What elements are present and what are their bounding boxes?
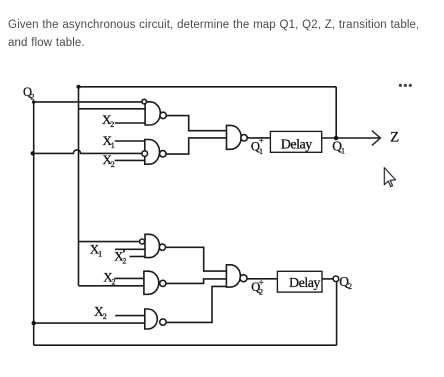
wire X2 lead gate1: [115, 122, 145, 124]
nand gate U3 output bubble: [241, 135, 247, 141]
svg-text:2: 2: [111, 160, 115, 169]
svg-text:2: 2: [30, 93, 34, 102]
svg-text:+: +: [259, 136, 264, 146]
mouse cursor: [384, 168, 395, 187]
svg-text:2: 2: [348, 282, 352, 291]
wire gate4 bottom input lead: [130, 256, 146, 258]
nand gate U1 output bubble: [160, 112, 166, 118]
nand gate U2 input bubble: [142, 151, 148, 157]
junction dot Q2 gate7 tap: [32, 321, 36, 325]
arrowhead Z: [372, 131, 381, 146]
nand gate U7 output bubble: [160, 319, 166, 325]
svg-text:2: 2: [259, 287, 263, 297]
svg-text:1: 1: [259, 146, 263, 156]
wire X2 lead gate7: [115, 315, 145, 317]
wire Q1 to gate5 bottom input: [79, 285, 144, 287]
svg-text:Delay: Delay: [289, 276, 320, 291]
wire bottom feedback horizontal: [34, 344, 337, 346]
ellipsis top right: [399, 84, 402, 87]
wire Q2 to gate2 middle input with hop: [34, 150, 142, 154]
junction dot Q1 output node: [334, 136, 339, 141]
wire Q2 to gate1 top input: [34, 101, 142, 103]
svg-text:2: 2: [110, 120, 114, 129]
nand gate U4 input bubble: [140, 239, 145, 244]
wire gate7 output to gate6 bottom input: [166, 286, 226, 322]
nand gate U1 input bubble: [142, 99, 147, 104]
nand gate U4 output bubble: [159, 244, 165, 250]
wire gate2 output to gate3 bottom input: [166, 138, 227, 154]
wire delay2 output to Q2 node circle: [322, 278, 333, 280]
node circle Q2 output: [333, 276, 339, 282]
svg-text:1: 1: [98, 249, 102, 258]
wire Q2 to gate7 input: [34, 322, 145, 324]
svg-text:2: 2: [103, 312, 107, 321]
nand gate U5 body: [144, 271, 159, 294]
svg-text:Z: Z: [390, 130, 399, 146]
nand gate U3 body: [227, 125, 242, 149]
nand gate U1 body: [145, 102, 160, 125]
junction dot Q2 gate2 tap: [30, 151, 34, 155]
wire gate4 output to gate6 top input: [165, 247, 226, 271]
nand gate U4 body: [145, 234, 160, 257]
delay box 1: [270, 131, 321, 152]
junction dot Q1 top-left: [76, 85, 80, 89]
wire gate5 output to gate6 middle input: [166, 279, 227, 284]
wire Q1 feedback top horizontal: [79, 86, 337, 88]
wire X2bar lead gate4 with tick: [115, 249, 145, 252]
nand gate U7 body: [145, 309, 158, 329]
nand gate U6 body: [226, 265, 240, 287]
nand gate U2 output bubble: [160, 151, 166, 157]
svg-text:1: 1: [111, 141, 115, 150]
nand gate U5 output bubble: [160, 280, 166, 286]
nand gate U6 output bubble: [240, 275, 247, 282]
wire Q2 feedback riser: [336, 282, 338, 346]
wire gate6 output to delay2: [247, 278, 277, 280]
wire X2 lead gate5: [114, 277, 144, 279]
wire Q1 to gate1 middle input: [79, 108, 146, 110]
wire Q1 feedback left vertical: [78, 87, 80, 286]
wire gate1 output to gate3 top input: [166, 116, 226, 131]
wire gate3 output to delay1: [247, 137, 270, 139]
wire X2 lead gate2: [115, 159, 145, 161]
wire X1 lead gate2: [115, 140, 145, 142]
delay box 2: [277, 271, 322, 292]
svg-text:Delay: Delay: [281, 138, 312, 153]
wire Q1 feedback right vertical: [335, 87, 337, 138]
nand gate U2 body: [145, 140, 160, 165]
svg-text:2: 2: [122, 257, 126, 266]
wire Q1 to gate4 bubble input: [79, 241, 140, 243]
wire delay1 output to Z arrow: [322, 137, 380, 139]
junction dot Q2 top corner: [32, 100, 35, 103]
svg-text:2: 2: [112, 278, 116, 287]
wire Q2 vertical trunk: [33, 102, 35, 345]
svg-text:1: 1: [341, 147, 345, 156]
